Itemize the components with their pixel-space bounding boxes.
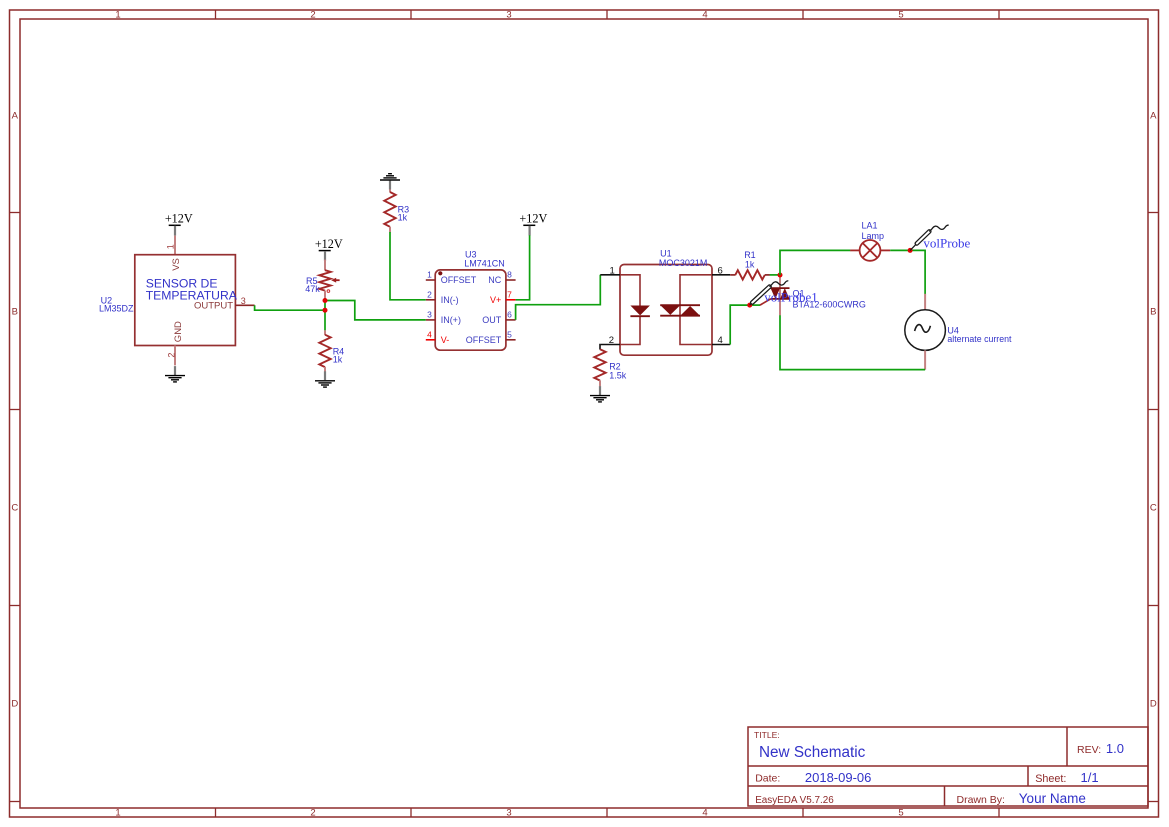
- power flag +12V (U2 supply): [165, 212, 193, 236]
- border row letters left: [11, 110, 18, 709]
- svg-text:VS: VS: [171, 258, 182, 271]
- svg-text:IN(-): IN(-): [441, 295, 459, 305]
- svg-text:7: 7: [507, 289, 512, 299]
- svg-text:1: 1: [115, 808, 120, 819]
- svg-text:3: 3: [241, 296, 246, 306]
- op-amp U3 body: [435, 270, 506, 350]
- svg-text:R1: R1: [744, 250, 756, 260]
- svg-text:1: 1: [166, 244, 176, 249]
- wire junction to op-amp IN+: [325, 301, 426, 320]
- svg-text:4: 4: [702, 10, 707, 21]
- svg-text:C: C: [1150, 502, 1157, 513]
- svg-text:5: 5: [507, 329, 512, 339]
- svg-text:1: 1: [115, 10, 120, 21]
- U1 internal triac top bar: [660, 304, 700, 306]
- U1 pin 6 wire: [712, 274, 730, 276]
- svg-text:V-: V-: [441, 335, 450, 345]
- U3 pin 5 lead: [506, 339, 516, 341]
- svg-text:1: 1: [610, 265, 615, 276]
- resistor R4: [319, 335, 330, 367]
- svg-text:IN(+): IN(+): [441, 315, 461, 325]
- svg-text:volProbe: volProbe: [923, 235, 970, 250]
- svg-text:A: A: [12, 110, 19, 121]
- U3 pin 7 lead: [506, 299, 516, 301]
- svg-text:LM35DZ: LM35DZ: [99, 303, 134, 313]
- lamp LA1 circle: [860, 240, 881, 261]
- svg-text:LM741CN: LM741CN: [464, 259, 505, 269]
- svg-text:3: 3: [427, 310, 432, 320]
- resistor R3: [384, 192, 395, 227]
- wire lamp to U4 corner: [890, 250, 925, 294]
- U1 pin 1 wire: [600, 274, 620, 276]
- svg-text:4: 4: [702, 808, 707, 819]
- svg-text:V+: V+: [490, 295, 501, 305]
- resistor R1: [735, 270, 765, 279]
- AC source U4 circle: [905, 310, 946, 351]
- border column numbers top: [115, 10, 903, 21]
- border row letters right: [1150, 110, 1157, 709]
- border column ticks top: [216, 10, 1000, 19]
- svg-text:2: 2: [427, 289, 432, 299]
- svg-text:1k: 1k: [398, 213, 408, 223]
- voltage probe volProbe1 icon: [750, 281, 789, 305]
- triac Q1 bottom bar: [771, 298, 790, 300]
- R4 bottom lead: [324, 367, 326, 373]
- title block DrawnBy separator: [944, 786, 946, 806]
- svg-text:2: 2: [609, 335, 614, 346]
- svg-text:Drawn By:: Drawn By:: [957, 794, 1005, 806]
- ground (R2): [590, 386, 610, 402]
- power flag +12V (U3 supply): [519, 212, 547, 236]
- optocoupler U1 body: [620, 265, 712, 356]
- R2 bottom lead: [599, 380, 601, 386]
- svg-text:B: B: [12, 306, 18, 317]
- svg-text:6: 6: [507, 310, 512, 320]
- U3 pin 1 lead: [426, 279, 435, 281]
- svg-text:6: 6: [718, 265, 723, 276]
- R5 wiper open pin circle: [327, 290, 330, 293]
- border column ticks bottom: [216, 808, 1000, 817]
- U3 pin 2 lead: [426, 299, 435, 301]
- U1 internal LED connection lines: [620, 275, 640, 345]
- title block REV separator: [1066, 727, 1068, 766]
- svg-text:OFFSET: OFFSET: [466, 335, 502, 345]
- svg-text:REV:: REV:: [1077, 744, 1101, 756]
- U4 bottom lead: [924, 350, 926, 369]
- junction node R1/Q1: [778, 273, 783, 278]
- lamp LA1 right lead: [880, 249, 890, 251]
- U1 pin 4 wire: [712, 344, 730, 346]
- triac Q1 right triangle: [780, 288, 789, 299]
- U4 top lead: [924, 294, 926, 310]
- wire U4 bottom loop to Q1 MT1: [780, 315, 925, 369]
- wire lamp row left vertical: [780, 250, 850, 275]
- svg-text:2: 2: [310, 10, 315, 21]
- svg-text:1.5k: 1.5k: [609, 370, 627, 380]
- title block row separator 2: [748, 785, 1148, 787]
- svg-text:LA1: LA1: [862, 220, 878, 230]
- U3 pin 6 lead: [506, 319, 516, 321]
- svg-text:3: 3: [506, 808, 511, 819]
- svg-text:B: B: [1150, 306, 1156, 317]
- svg-text:C: C: [11, 502, 18, 513]
- U1 pin 2 wire: [600, 344, 620, 346]
- U2 pin 3 lead: [235, 304, 254, 306]
- resistor R2: [594, 349, 605, 380]
- wire R3 to op-amp IN-: [390, 232, 426, 300]
- lamp LA1 left lead: [850, 249, 860, 251]
- svg-text:Sheet:: Sheet:: [1035, 773, 1066, 785]
- potentiometer R5: [319, 270, 330, 290]
- triac Q1 top bar: [771, 287, 790, 289]
- triac Q1 gate lead: [760, 299, 771, 305]
- junction node volProbe: [908, 248, 913, 253]
- ground (U2 pin 2): [165, 366, 185, 382]
- svg-text:New Schematic: New Schematic: [759, 744, 866, 761]
- triac Q1 MT1 lead: [779, 299, 781, 316]
- junction node B (output wire): [323, 308, 328, 313]
- svg-text:1: 1: [427, 270, 432, 280]
- ground (R3, flipped above): [380, 174, 400, 190]
- wire gate node to gate lead: [750, 304, 761, 306]
- svg-text:8: 8: [507, 270, 512, 280]
- svg-text:MOC3021M: MOC3021M: [659, 258, 708, 268]
- wire U1 pin4 up to triac gate node: [730, 305, 750, 344]
- U3 pin 8 lead: [506, 279, 516, 281]
- svg-text:5: 5: [898, 10, 903, 21]
- title block outline: [748, 727, 1148, 806]
- U1 internal triac right triangle: [680, 306, 700, 316]
- U1 internal triac left triangle: [660, 305, 680, 315]
- svg-text:alternate current: alternate current: [947, 334, 1012, 344]
- U3 pin 3 lead: [426, 319, 435, 321]
- svg-text:A: A: [1150, 110, 1157, 121]
- svg-text:GND: GND: [173, 321, 184, 342]
- junction node A (R5/wire): [323, 298, 328, 303]
- wire R5 to junction: [324, 298, 326, 300]
- triac Q1 MT2 lead: [779, 275, 781, 288]
- R2 top corner wire: [599, 345, 601, 350]
- svg-text:Date:: Date:: [755, 773, 780, 785]
- U1 internal triac bottom bar: [660, 315, 700, 317]
- U1 internal LED anode triangle: [630, 306, 650, 316]
- triac Q1 mid lead: [779, 288, 781, 299]
- border row ticks right: [1148, 213, 1159, 802]
- power flag +12V (R5 supply): [315, 237, 343, 261]
- R5 wiper arrow: [331, 278, 336, 283]
- svg-text:volProbe1: volProbe1: [764, 290, 817, 305]
- svg-text:NC: NC: [488, 275, 501, 285]
- svg-text:2: 2: [310, 808, 315, 819]
- U1 internal triac connection lines: [680, 275, 712, 345]
- svg-text:D: D: [1150, 698, 1157, 709]
- sensor U2 body: [135, 255, 236, 346]
- border column numbers bottom: [115, 808, 903, 819]
- svg-text:1k: 1k: [333, 355, 343, 365]
- svg-text:1/1: 1/1: [1081, 770, 1099, 785]
- svg-text:Lamp: Lamp: [862, 231, 885, 241]
- R5 bottom lead: [324, 291, 326, 299]
- ground (R4): [315, 371, 335, 387]
- svg-text:2018-09-06: 2018-09-06: [805, 770, 872, 785]
- svg-text:OUTPUT: OUTPUT: [194, 300, 233, 311]
- svg-text:47k: 47k: [305, 284, 320, 294]
- U2 pin 2 lead: [174, 346, 176, 366]
- R5 top lead: [324, 260, 326, 271]
- U2 pin 1 lead: [174, 236, 176, 255]
- U3 pin 4 lead: [426, 339, 435, 341]
- svg-text:1.0: 1.0: [1106, 741, 1124, 756]
- R3 top lead: [389, 189, 391, 192]
- U3 orientation dot: [438, 271, 442, 275]
- R1 right lead: [765, 274, 770, 276]
- triac Q1 left triangle: [771, 288, 781, 299]
- svg-text:EasyEDA V5.7.26: EasyEDA V5.7.26: [755, 795, 834, 806]
- R1 left lead: [730, 274, 735, 276]
- wire op-amp OUT to U1 pin 1: [516, 275, 601, 320]
- title block row separator 1: [748, 765, 1148, 767]
- svg-text:U1: U1: [660, 249, 672, 259]
- R3 bottom lead: [389, 227, 391, 233]
- wire +12V to op-amp V+: [516, 235, 530, 299]
- U4 sine wave: [915, 325, 931, 333]
- svg-text:Your Name: Your Name: [1019, 791, 1086, 806]
- wire R1 to junction: [770, 274, 780, 276]
- title block Sheet separator: [1027, 766, 1029, 786]
- wire U2 output to junction: [255, 305, 325, 310]
- voltage probe volProbe icon: [910, 225, 949, 250]
- U1 internal LED cathode bar: [630, 315, 650, 317]
- svg-text:TITLE:: TITLE:: [754, 730, 780, 740]
- svg-text:4: 4: [718, 335, 723, 346]
- svg-text:2: 2: [167, 353, 177, 358]
- svg-text:OUT: OUT: [482, 315, 502, 325]
- svg-text:5: 5: [898, 808, 903, 819]
- svg-text:4: 4: [427, 329, 432, 339]
- border row ticks left: [10, 213, 21, 802]
- svg-text:1k: 1k: [745, 260, 755, 270]
- svg-text:OFFSET: OFFSET: [441, 275, 477, 285]
- wire junction vertical down to R4: [324, 301, 326, 331]
- junction node gate: [747, 303, 752, 308]
- svg-text:3: 3: [506, 10, 511, 21]
- R4 top lead: [324, 330, 326, 335]
- svg-text:D: D: [11, 698, 18, 709]
- lamp LA1 cross: [863, 243, 878, 258]
